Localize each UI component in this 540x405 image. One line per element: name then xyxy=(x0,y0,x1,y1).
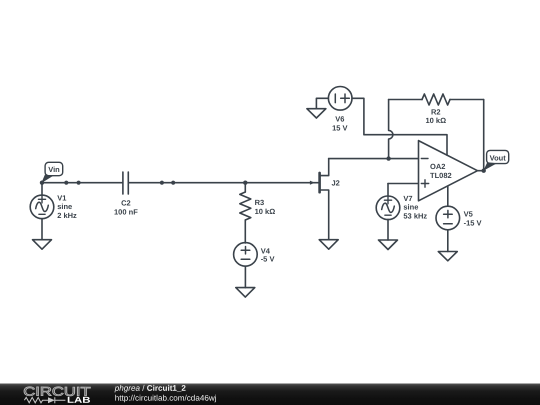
V6 value label xyxy=(332,115,347,133)
wire V6 plus to op-amp V+ xyxy=(352,98,447,155)
R3 value label xyxy=(255,198,276,216)
net label Vout xyxy=(483,150,508,170)
CircuitLab logo LAB xyxy=(67,395,91,405)
svg-text:V1: V1 xyxy=(57,193,66,202)
ground (V7) xyxy=(379,240,398,250)
svg-text:R3: R3 xyxy=(255,198,265,207)
svg-text:sine: sine xyxy=(57,202,72,211)
junction dot xyxy=(77,181,81,185)
svg-text:-5 V: -5 V xyxy=(261,255,275,264)
wire input rail left xyxy=(42,182,123,184)
svg-text:V7: V7 xyxy=(403,194,412,203)
footer bar xyxy=(0,384,540,405)
svg-text:LAB: LAB xyxy=(67,395,91,405)
junction dot R3 node xyxy=(243,181,247,185)
junction dot output node xyxy=(482,169,486,173)
footer title text xyxy=(114,384,217,403)
V5 value label xyxy=(464,210,482,228)
ground (V1) xyxy=(33,240,52,250)
junction dot feedback node xyxy=(386,156,390,160)
OA2 value label xyxy=(430,162,452,180)
C2 value label xyxy=(114,199,138,217)
J2 label xyxy=(332,178,340,187)
ground (V4) xyxy=(236,288,255,298)
svg-text:http://circuitlab.com/cda46wj: http://circuitlab.com/cda46wj xyxy=(115,394,217,403)
svg-text:2 kHz: 2 kHz xyxy=(57,211,77,220)
resistor R3 xyxy=(240,183,251,243)
capacitor C2 xyxy=(123,172,128,194)
wire V6 minus to ground xyxy=(316,98,328,108)
wire drain rail to op-amp minus input xyxy=(329,158,419,160)
svg-text:15 V: 15 V xyxy=(332,123,347,132)
gate arrowhead xyxy=(310,181,315,185)
junction dot xyxy=(171,181,175,185)
ground (J2 source) xyxy=(319,240,338,250)
svg-text:TL082: TL082 xyxy=(430,171,452,180)
V7 value label xyxy=(403,194,427,221)
svg-text:10 kΩ: 10 kΩ xyxy=(255,207,276,216)
V4 value label xyxy=(261,247,275,264)
voltage source V6 xyxy=(328,87,352,111)
svg-text:V6: V6 xyxy=(335,115,344,124)
wire input rail mid xyxy=(129,182,246,184)
svg-text:-15 V: -15 V xyxy=(464,218,482,227)
svg-text:100 nF: 100 nF xyxy=(114,207,138,216)
svg-text:C2: C2 xyxy=(121,199,131,208)
junction dot xyxy=(160,181,164,185)
R2 value label xyxy=(425,107,446,125)
svg-text:phgrea / Circuit1_2: phgrea / Circuit1_2 xyxy=(114,384,187,393)
transistor J2 (N-JFET) xyxy=(320,159,329,240)
resistor R2 xyxy=(389,94,484,105)
op-amp OA2 xyxy=(419,141,478,207)
net label Vin xyxy=(41,162,62,183)
voltage source V5 xyxy=(436,206,460,251)
svg-text:Vin: Vin xyxy=(48,165,60,174)
V1 value label xyxy=(57,193,77,220)
wire feedback right vertical xyxy=(483,100,485,171)
svg-text:OA2: OA2 xyxy=(430,162,445,171)
svg-text:sine: sine xyxy=(403,203,418,212)
CircuitLab logo squiggle with diode xyxy=(24,397,65,403)
svg-text:Vout: Vout xyxy=(490,153,507,162)
voltage source V1 xyxy=(30,183,54,240)
CircuitLab logo CIRCUIT xyxy=(23,385,91,399)
wire feedback left vertical with hop xyxy=(389,100,393,159)
svg-text:53 kHz: 53 kHz xyxy=(403,211,427,220)
svg-text:V5: V5 xyxy=(464,210,473,219)
wire op-amp output xyxy=(478,170,484,172)
wire gate lead xyxy=(245,182,318,184)
svg-text:J2: J2 xyxy=(332,178,340,187)
voltage source V4 xyxy=(234,243,258,288)
node dot Vin xyxy=(40,181,44,185)
ground (V5) xyxy=(438,252,457,261)
svg-text:10 kΩ: 10 kΩ xyxy=(425,116,446,125)
voltage source V7 xyxy=(376,184,418,241)
junction dot xyxy=(64,181,68,185)
ground (V6) xyxy=(307,109,326,118)
svg-text:R2: R2 xyxy=(431,107,441,116)
